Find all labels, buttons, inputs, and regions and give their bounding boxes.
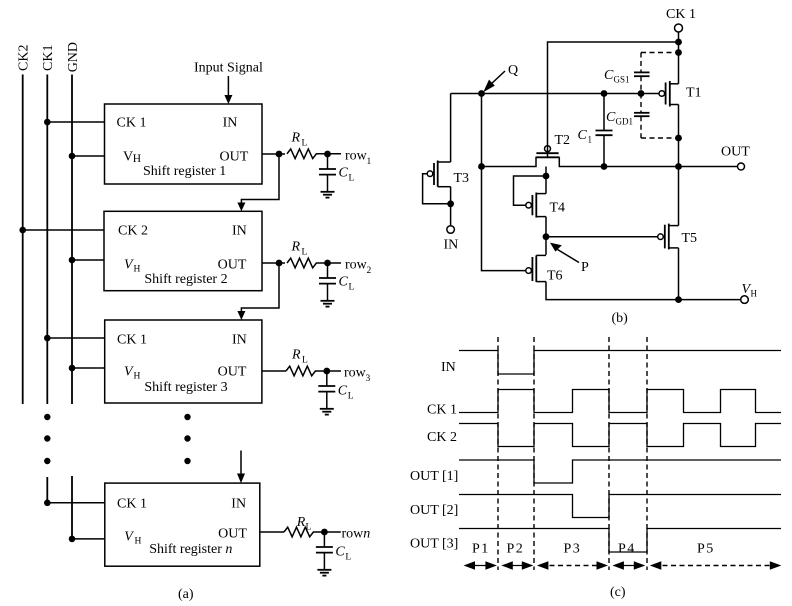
svg-text:CK 1: CK 1 <box>117 116 147 131</box>
svg-text:GS1: GS1 <box>614 75 630 85</box>
svg-text:CK 1: CK 1 <box>666 7 696 22</box>
svg-text:R: R <box>291 131 301 146</box>
svg-text:T1: T1 <box>686 86 702 101</box>
svg-text:GND: GND <box>66 42 81 72</box>
svg-text:Shift register 2: Shift register 2 <box>144 272 227 287</box>
svg-text:row: row <box>344 366 367 381</box>
svg-text:C: C <box>604 68 614 83</box>
svg-text:V: V <box>124 530 134 545</box>
svg-text:Shift register 3: Shift register 3 <box>144 380 227 395</box>
svg-text:T5: T5 <box>682 231 698 246</box>
svg-text:H: H <box>134 372 141 382</box>
svg-text:L: L <box>345 553 351 563</box>
svg-text:Shift register 1: Shift register 1 <box>143 164 226 179</box>
svg-text:V: V <box>123 150 133 165</box>
svg-text:L: L <box>349 283 355 293</box>
svg-text:H: H <box>135 537 142 547</box>
svg-text:C: C <box>335 545 345 560</box>
svg-text:CK 2: CK 2 <box>427 430 457 445</box>
svg-text:T4: T4 <box>550 201 566 216</box>
svg-text:1: 1 <box>588 135 593 145</box>
svg-text:3: 3 <box>366 374 371 384</box>
svg-text:(c): (c) <box>610 585 626 600</box>
svg-text:L: L <box>302 248 308 258</box>
svg-text:OUT: OUT <box>218 258 247 273</box>
svg-text:GD1: GD1 <box>616 117 634 127</box>
svg-text:Shift register n: Shift register n <box>149 542 232 557</box>
svg-text:IN: IN <box>232 224 247 239</box>
svg-text:OUT: OUT <box>220 150 249 165</box>
svg-text:Input Signal: Input Signal <box>194 61 263 76</box>
svg-text:CK 2: CK 2 <box>118 224 148 239</box>
svg-text:C: C <box>339 275 349 290</box>
svg-text:T3: T3 <box>454 171 470 186</box>
svg-text:Q: Q <box>508 63 518 78</box>
svg-text:P4: P4 <box>618 542 636 557</box>
svg-text:V: V <box>124 365 134 380</box>
svg-text:row: row <box>345 258 368 273</box>
svg-text:IN: IN <box>223 116 238 131</box>
svg-text:L: L <box>302 139 308 149</box>
svg-text:OUT: OUT <box>218 527 247 542</box>
svg-text:OUT [2]: OUT [2] <box>410 503 458 518</box>
svg-text:P5: P5 <box>697 542 715 557</box>
svg-text:P1: P1 <box>472 542 490 557</box>
svg-text:C: C <box>339 166 349 181</box>
svg-text:T6: T6 <box>547 269 563 284</box>
svg-text:rown: rown <box>342 527 371 542</box>
svg-text:H: H <box>751 289 758 299</box>
svg-text:P2: P2 <box>507 542 525 557</box>
svg-text:OUT [3]: OUT [3] <box>410 537 458 552</box>
svg-text:H: H <box>133 153 141 165</box>
svg-text:C: C <box>578 128 588 143</box>
svg-text:OUT: OUT <box>218 365 247 380</box>
svg-text:CK 1: CK 1 <box>117 497 147 512</box>
svg-text:R: R <box>291 240 301 255</box>
svg-text:H: H <box>134 265 141 275</box>
svg-text:V: V <box>124 258 134 273</box>
svg-text:CK2: CK2 <box>17 45 32 71</box>
svg-text:IN: IN <box>231 497 246 512</box>
svg-text:IN: IN <box>232 333 247 348</box>
svg-text:(b): (b) <box>612 311 629 326</box>
svg-text:(a): (a) <box>178 587 194 601</box>
svg-text:L: L <box>302 356 308 366</box>
svg-text:P: P <box>581 260 589 275</box>
svg-text:L: L <box>348 392 354 402</box>
svg-text:L: L <box>306 523 312 533</box>
svg-text:OUT: OUT <box>721 145 750 160</box>
svg-text:P3: P3 <box>564 542 582 557</box>
svg-text:C: C <box>338 384 348 399</box>
svg-text:IN: IN <box>441 360 456 375</box>
svg-text:OUT [1]: OUT [1] <box>410 469 458 484</box>
svg-text:R: R <box>296 515 306 530</box>
svg-text:CK 1: CK 1 <box>117 333 147 348</box>
svg-text:C: C <box>606 110 616 125</box>
svg-text:R: R <box>291 348 301 363</box>
svg-text:IN: IN <box>444 238 459 253</box>
svg-text:CK 1: CK 1 <box>427 403 457 418</box>
svg-text:1: 1 <box>367 157 372 167</box>
svg-text:CK1: CK1 <box>41 45 56 71</box>
svg-text:T2: T2 <box>555 133 571 148</box>
svg-text:row: row <box>345 149 368 164</box>
svg-text:2: 2 <box>367 266 372 276</box>
svg-text:L: L <box>349 174 355 184</box>
